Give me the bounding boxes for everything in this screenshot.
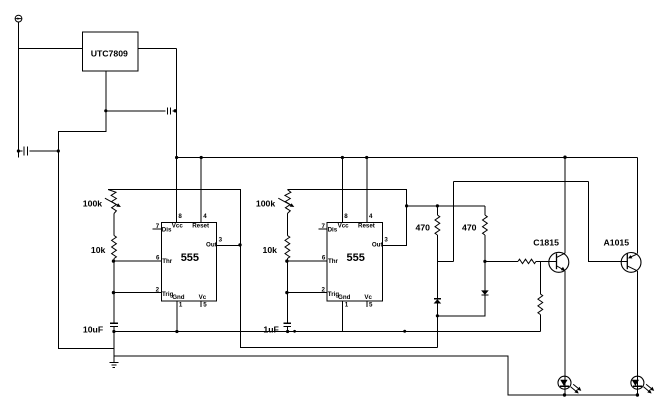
svg-text:Vc: Vc: [199, 294, 207, 301]
svg-text:Gnd: Gnd: [172, 294, 185, 301]
svg-text:8: 8: [344, 213, 348, 220]
svg-text:3: 3: [219, 236, 223, 243]
svg-text:Vcc: Vcc: [172, 223, 184, 230]
svg-text:100k: 100k: [256, 199, 275, 209]
svg-text:Reset: Reset: [192, 223, 209, 230]
svg-text:3: 3: [384, 236, 388, 243]
svg-text:Thr: Thr: [162, 258, 173, 265]
svg-text:Dis: Dis: [162, 226, 172, 233]
svg-text:1uF: 1uF: [263, 325, 278, 335]
svg-text:470: 470: [462, 222, 477, 232]
svg-text:2: 2: [156, 286, 160, 293]
svg-text:4: 4: [203, 213, 207, 220]
svg-text:8: 8: [178, 213, 182, 220]
svg-text:6: 6: [156, 255, 160, 262]
svg-text:UTC7809: UTC7809: [91, 49, 128, 59]
svg-text:Thr: Thr: [328, 258, 339, 265]
svg-text:Dis: Dis: [328, 226, 338, 233]
svg-text:Out: Out: [372, 242, 383, 249]
svg-text:Gnd: Gnd: [338, 294, 351, 301]
svg-text:4: 4: [369, 213, 373, 220]
svg-text:7: 7: [156, 223, 160, 230]
svg-text:5: 5: [203, 302, 207, 309]
svg-text:A1015: A1015: [604, 237, 630, 247]
svg-text:10k: 10k: [91, 245, 106, 255]
svg-text:1: 1: [179, 302, 183, 309]
svg-text:1: 1: [345, 302, 349, 309]
svg-text:10uF: 10uF: [83, 325, 103, 335]
svg-text:2: 2: [321, 286, 325, 293]
svg-text:C1815: C1815: [533, 237, 559, 247]
svg-text:10k: 10k: [263, 245, 278, 255]
svg-text:Out: Out: [206, 242, 217, 249]
svg-text:555: 555: [181, 252, 199, 264]
svg-text:470: 470: [416, 222, 431, 232]
svg-text:Reset: Reset: [358, 223, 375, 230]
svg-text:100k: 100k: [83, 199, 102, 209]
svg-text:7: 7: [322, 223, 326, 230]
svg-text:Vcc: Vcc: [338, 223, 350, 230]
svg-text:555: 555: [347, 252, 365, 264]
svg-text:5: 5: [369, 302, 373, 309]
svg-text:6: 6: [322, 255, 326, 262]
svg-text:Vc: Vc: [364, 294, 372, 301]
